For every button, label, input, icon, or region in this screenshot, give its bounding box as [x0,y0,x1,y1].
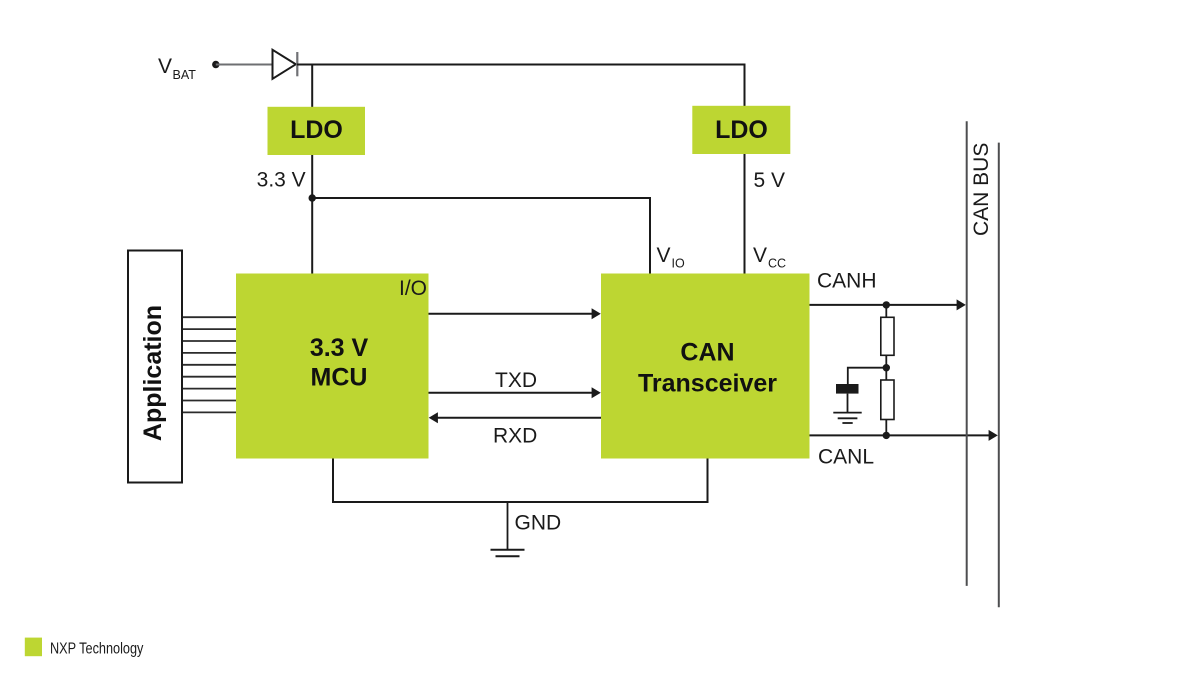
svg-text:TXD: TXD [495,369,537,392]
block Application [128,251,182,483]
svg-text:Application: Application [139,305,167,441]
svg-text:LDO: LDO [715,116,768,144]
node 3.3V junction dot [309,194,316,201]
wire 3.3V rail to VIO drop [312,197,650,199]
wire capacitor to ground [847,394,849,413]
svg-text:CANH: CANH [817,270,877,293]
node CANH junction dot [883,301,890,308]
arrowhead CANL to bus [989,430,998,441]
svg-text:IO: IO [672,257,685,271]
node VBAT terminal dot [212,61,219,68]
wire ground stub [507,502,509,549]
block MCU [236,274,429,459]
arrowhead CANH to bus [957,299,966,310]
svg-text:GND: GND [515,512,562,535]
arrowhead TXD into transceiver [592,387,601,398]
wire mid node to capacitor [848,368,887,384]
node CANL junction dot [883,432,890,439]
block CAN Transceiver [601,274,810,459]
wire CANL [810,434,992,436]
svg-text:CC: CC [768,257,786,271]
pin label VCC [753,244,786,271]
svg-text:RXD: RXD [493,425,537,448]
wire CANH dot to R1 [885,305,887,317]
wire LDO2 output to VCC pin [744,154,746,274]
svg-text:CANL: CANL [818,446,874,469]
ground symbol capacitor [833,413,861,423]
svg-text:CAN: CAN [680,339,734,367]
wire MCU ground drop [333,459,508,503]
resistor R2 termination [881,380,894,420]
svg-text:BAT: BAT [173,68,197,82]
svg-text:I/O: I/O [399,277,427,300]
regulator LDO2 block [692,106,790,154]
svg-text:3.3 V: 3.3 V [257,169,306,192]
svg-text:LDO: LDO [290,116,343,144]
wire CANH [810,304,960,306]
wire top rail down to LDO1 [311,65,313,108]
wire R1 to mid node [885,355,887,380]
wire VIO drop to transceiver [649,197,651,274]
regulator LDO1 block [268,107,366,155]
wire I/O MCU to transceiver [429,313,595,315]
svg-text:NXP Technology: NXP Technology [50,640,144,657]
wire R2 to CANL [885,420,887,436]
svg-text:5 V: 5 V [754,169,786,192]
wire LDO1 output to 3.3V node [311,155,313,274]
legend NXP Technology swatch [25,638,42,657]
bus line CANL vertical [998,143,1000,608]
svg-text:MCU: MCU [311,364,368,392]
svg-text:CAN BUS: CAN BUS [970,143,993,236]
diode D1 [273,50,298,79]
node VBAT label [158,55,196,82]
wire VBAT to diode anode [216,64,272,66]
svg-text:3.3 V: 3.3 V [310,334,369,362]
svg-text:V: V [158,55,172,78]
wire top rail down to LDO2 [744,64,746,107]
wires Application to MCU (9 lines) [183,317,236,412]
arrowhead RXD into MCU [429,412,438,423]
node split termination mid dot [883,364,890,371]
svg-text:V: V [753,244,767,267]
pin label VIO [657,244,685,271]
wire RXD transceiver to MCU [435,417,601,419]
wire transceiver ground drop [508,459,708,503]
wire diode cathode to LDO2 drop (top rail) [297,64,745,66]
resistor R1 termination [881,317,894,355]
svg-text:Transceiver: Transceiver [638,370,777,398]
arrowhead I/O into transceiver [592,308,601,319]
wire TXD MCU to transceiver [429,392,595,394]
capacitor C1 plate [836,384,859,394]
ground symbol main [491,550,525,556]
svg-text:V: V [657,244,671,267]
bus line CANH vertical [966,121,968,586]
